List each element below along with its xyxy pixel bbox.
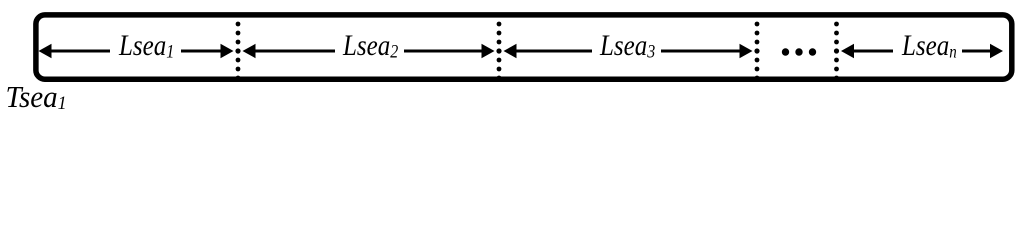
dotted separator 1 [235, 22, 240, 81]
dimension arrow Lsean [841, 44, 1003, 58]
label Lsea1 [118, 29, 174, 61]
dimension arrow Lsea1 [39, 44, 234, 58]
dimension arrow Lsea2 [243, 44, 495, 58]
ellipsis between segments [782, 48, 816, 55]
svg-text:Lsea3: Lsea3 [599, 29, 655, 61]
dotted separator 2 [496, 22, 501, 81]
sea surface box [36, 15, 1012, 79]
svg-text:Lsean: Lsean [901, 29, 957, 61]
label Tsea1 [6, 80, 67, 114]
label Lsea3 [599, 29, 655, 61]
svg-text:Lsea2: Lsea2 [342, 29, 398, 61]
label Lsea2 [342, 29, 398, 61]
svg-text:Tsea1: Tsea1 [6, 80, 67, 114]
svg-text:Lsea1: Lsea1 [118, 29, 174, 61]
dotted separator 3 [754, 22, 759, 81]
dotted separator 4 [834, 22, 839, 81]
label Lsean [901, 29, 957, 61]
dimension arrow Lsea3 [504, 44, 753, 58]
